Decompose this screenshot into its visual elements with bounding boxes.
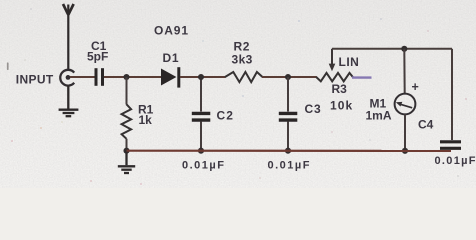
capacitor C2 <box>192 113 211 120</box>
svg-text:INPUT: INPUT <box>16 72 54 86</box>
junction <box>123 148 129 154</box>
wire <box>332 48 452 50</box>
junction <box>198 148 204 154</box>
wire <box>352 76 372 78</box>
capacitor C4 <box>440 142 461 149</box>
wire <box>200 77 202 112</box>
wire <box>70 76 95 78</box>
svg-text:C3: C3 <box>305 102 322 116</box>
diode D1 <box>161 67 179 87</box>
junction <box>401 46 407 52</box>
svg-text:LIN: LIN <box>339 55 360 69</box>
svg-text:+: + <box>412 80 419 94</box>
junction <box>402 148 408 154</box>
svg-text:0.01µF: 0.01µF <box>435 155 476 167</box>
svg-text:1mA: 1mA <box>366 109 392 123</box>
svg-text:0.01µF: 0.01µF <box>182 159 225 171</box>
wire <box>451 49 453 140</box>
antenna <box>63 4 74 70</box>
wire <box>104 76 162 78</box>
svg-text:C4: C4 <box>418 118 434 132</box>
svg-text:D1: D1 <box>163 51 180 65</box>
wire <box>404 114 406 150</box>
junction <box>285 74 291 80</box>
wire <box>180 76 226 78</box>
ground <box>118 151 135 173</box>
wire <box>287 77 289 112</box>
ground <box>59 85 79 116</box>
junction <box>123 74 129 80</box>
svg-text:C2: C2 <box>217 108 235 122</box>
resistor R2 <box>225 72 263 82</box>
junction <box>285 148 291 154</box>
wire <box>403 49 405 94</box>
svg-text:R3: R3 <box>332 82 348 96</box>
svg-text:5pF: 5pF <box>87 50 108 64</box>
capacitor C3 <box>279 113 298 120</box>
svg-text:1k: 1k <box>139 113 153 127</box>
wire <box>262 76 317 78</box>
resistor R1 <box>122 104 132 139</box>
svg-text:3k3: 3k3 <box>232 52 253 66</box>
svg-text:0.01µF: 0.01µF <box>268 160 311 172</box>
wire <box>200 122 202 151</box>
wire <box>126 139 128 151</box>
wire <box>287 122 289 151</box>
svg-text:OA91: OA91 <box>154 24 189 38</box>
capacitor C1 <box>96 68 103 86</box>
wire ground rail <box>127 150 452 152</box>
junction <box>198 74 204 80</box>
potentiometer R3 <box>316 49 353 82</box>
meter M1 <box>395 94 416 115</box>
connector J1 INPUT <box>60 70 74 86</box>
wire <box>126 77 128 105</box>
svg-text:10k: 10k <box>330 98 353 112</box>
